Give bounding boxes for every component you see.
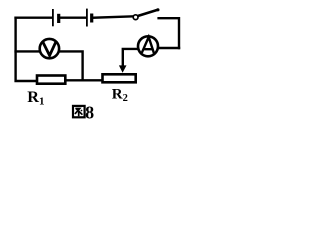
wire bottom between R1 and R2 (67, 79, 102, 81)
wire switch to top-right corner (159, 18, 179, 48)
switch lever tip contact (156, 8, 159, 11)
ammeter A1 circle (138, 36, 158, 56)
battery cell 2 long plate (86, 9, 88, 27)
wire ammeter right (160, 47, 180, 49)
wire voltmeter left (16, 50, 39, 52)
battery cell 1 long plate (52, 9, 54, 26)
battery cell 2 short plate (90, 14, 93, 23)
battery cell 1 short plate (57, 14, 60, 23)
wire battery to switch (93, 16, 133, 17)
svg-text:8: 8 (85, 103, 94, 123)
rheostat wiper arrow (119, 65, 127, 72)
wire top-left horizontal (16, 17, 52, 19)
switch lever (139, 10, 158, 16)
switch S pivot (133, 15, 138, 20)
ammeter letter A (142, 37, 155, 55)
wire between battery cells (60, 17, 86, 19)
caption ideograph TU (figure) drawn as vector (73, 106, 85, 117)
resistor R1 body (37, 76, 65, 84)
wire left vertical (16, 18, 36, 81)
wire voltmeter right down to bottom (60, 51, 82, 80)
rheostat R2 body (103, 74, 136, 82)
voltmeter letter V (42, 41, 56, 56)
voltmeter V1 circle (40, 39, 59, 58)
wire ammeter left to wiper corner (123, 49, 137, 67)
